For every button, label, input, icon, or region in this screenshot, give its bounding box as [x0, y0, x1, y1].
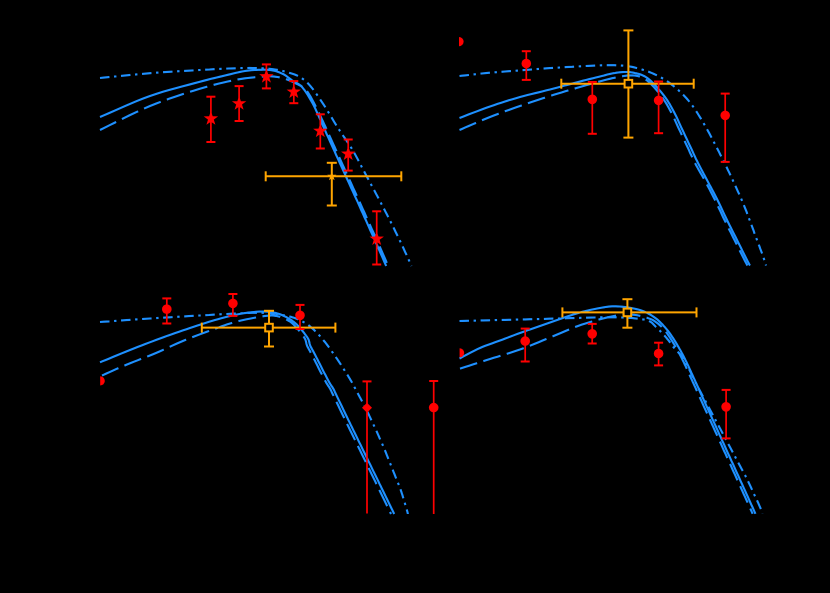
panel 1 dashed model curve	[100, 76, 388, 266]
panel 3 dashed model curve	[102, 316, 391, 515]
panel 3 red circle point 5 with long error bar	[429, 381, 439, 514]
panel 2 red circle point 1 with error bar	[522, 51, 532, 80]
panel 1 orange star point with x/y error bars	[266, 163, 402, 206]
panel 2 red circle point 4 with error bar	[720, 94, 730, 162]
panel 3 red diamond point with error bar to plot bottom	[362, 381, 372, 513]
panel 4 red circle point 2 with error bar	[587, 324, 597, 344]
panel 4 red circle point 4 with error bar	[721, 390, 731, 439]
panel 2 red circle point 3 with error bar	[654, 82, 664, 134]
panel 1 red star point 3 with error bar	[259, 64, 273, 88]
panel 3 red circle point 1 with error bar	[162, 298, 172, 323]
panel 4 red circle point 3 with error bar	[654, 343, 664, 366]
panel 3 orange open-square point with x/y error bars	[202, 311, 336, 347]
panel 2 solid model curve	[460, 72, 751, 266]
panel 1 red star point 5 with error bar	[313, 114, 327, 148]
panel 1 red star point 6 with error bar	[341, 140, 355, 171]
panel 1 red star point 2 with error bar	[232, 86, 246, 121]
panel 4 dash-dot model curve	[460, 317, 763, 513]
panel 1 solid model curve	[100, 70, 386, 266]
panel 2 red circle point 2 with error bar	[588, 82, 598, 134]
panel 4 solid model curve	[460, 306, 756, 514]
panel 4 red circle point 1 with error bar	[520, 329, 530, 362]
panel 1 red star point 1 with error bar	[204, 97, 218, 142]
panel 2 orange open-square point with x/y error bars	[561, 30, 693, 137]
panel 2 clipped red point at left axis	[459, 37, 464, 46]
panel 3 solid model curve	[100, 312, 394, 514]
panel 1 dash-dot model curve	[100, 68, 412, 266]
panel 4 clipped red point at left axis	[460, 348, 465, 357]
panel 2 dash-dot model curve	[460, 65, 767, 265]
panel 3 clipped red point at left axis	[100, 376, 105, 385]
panel 1 red star point 4 with error bar	[287, 81, 301, 103]
panel 3 red circle point 2 with error bar	[228, 294, 238, 316]
panel 4 dashed model curve	[460, 314, 753, 513]
panel 1 red star point 7 with error bar	[370, 211, 384, 264]
panel 3 dash-dot model curve	[100, 313, 408, 514]
panel 4 orange open-square point with x/y error bars	[562, 299, 696, 328]
panel 3 red circle point 3 with error bar	[295, 305, 305, 329]
panel 2 dashed model curve	[460, 75, 748, 265]
